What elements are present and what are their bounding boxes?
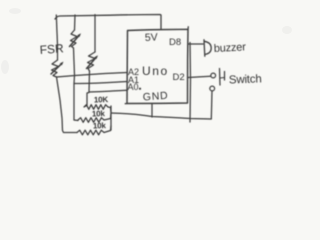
wire buzzer return vertical: [189, 43, 192, 123]
wire A0 to pin: [89, 90, 127, 92]
FSR F1 arrow: [70, 35, 80, 47]
faint scan smudges: [1, 8, 292, 74]
switch S1 lever: [219, 69, 222, 86]
svg-text:10K: 10K: [94, 95, 109, 105]
wire FSR3 down to A0 node: [88, 71, 91, 92]
wire R2 left lead: [74, 119, 78, 122]
svg-text:Switch: Switch: [229, 73, 262, 86]
Uno box: [127, 29, 188, 103]
FSR F3 arrow: [87, 57, 97, 69]
buzzer BZ1 symbol: [203, 40, 206, 56]
wire 5V top rail: [55, 15, 161, 30]
FSR F2 (left) zigzag: [52, 60, 59, 77]
svg-text:10k: 10k: [93, 121, 107, 130]
svg-text:10k: 10k: [92, 109, 106, 118]
junction dot: [139, 88, 141, 90]
wire D8 to buzzer: [188, 43, 203, 45]
svg-text:Uno: Uno: [142, 64, 169, 78]
wire FSR1 down through junctions to resistor R2: [74, 48, 75, 120]
svg-text:D2: D2: [173, 72, 185, 83]
svg-text:5V: 5V: [145, 31, 158, 44]
wire FSR2 node down to resistor R3: [57, 77, 78, 133]
wire vertical from rail to FSR2: [56, 15, 57, 60]
FSR F3 arrowhead: [94, 55, 98, 59]
wire switch return down to rail: [210, 91, 213, 119]
svg-text:GND: GND: [142, 90, 169, 104]
resistor R1 zigzag: [84, 105, 111, 112]
wire GND rail from resistors to switch return: [111, 113, 211, 119]
FSR F2 arrowhead: [60, 62, 64, 66]
svg-text:buzzer: buzzer: [214, 41, 247, 55]
FSR F2 arrow: [51, 63, 62, 74]
FSR F3 (right) zigzag: [88, 52, 96, 71]
buzzer BZ1 cone: [204, 41, 211, 54]
FSR F1 arrowhead: [77, 33, 81, 37]
wire GND pin drop: [151, 104, 153, 118]
wire A1 from x74 to pin: [74, 82, 127, 84]
wire vertical from rail to FSR3: [94, 15, 96, 52]
paper background: [0, 0, 300, 154]
wire FSR2 junction to A2 pin: [57, 73, 128, 78]
svg-text:A0: A0: [128, 82, 139, 92]
switch S1 terminal top circle: [211, 73, 216, 78]
svg-text:D8: D8: [169, 37, 181, 48]
wire resistor common vertical: [110, 106, 112, 130]
wire vertical from rail to FSR1: [74, 15, 77, 30]
wire D2 to switch: [188, 76, 211, 77]
wire feed to resistor R1: [87, 93, 89, 106]
resistor R2 zigzag: [78, 113, 111, 122]
switch S1 terminal bottom circle: [210, 86, 215, 91]
svg-text:FSR: FSR: [39, 41, 64, 57]
box corner tick top-right: [187, 27, 189, 30]
box corner tick bottom-left: [125, 103, 127, 105]
resistor R3 zigzag: [77, 126, 111, 135]
FSR F1 (top, on x=75 line) zigzag: [71, 30, 78, 48]
